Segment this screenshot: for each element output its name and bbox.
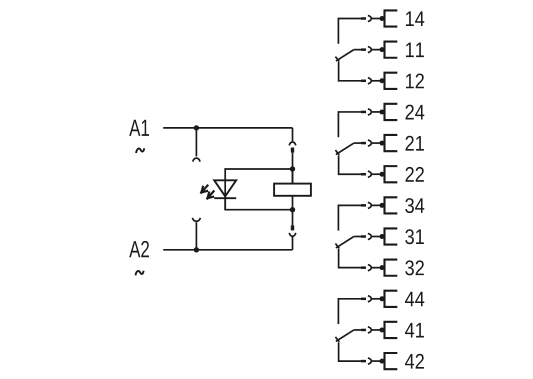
terminal label 41 [405, 323, 414, 338]
plug-in connection and terminal clamp 31 (common) [361, 228, 397, 244]
wire common 31 [354, 236, 361, 238]
wire NO contact 34 [338, 205, 361, 230]
terminal label 42 [405, 354, 414, 369]
terminal label 21 [406, 136, 414, 151]
junction coil top / LED branch top [290, 166, 295, 171]
terminal label 12 [406, 74, 414, 89]
plug-in connection and terminal clamp 11 (common) [361, 42, 397, 58]
LED emission arrow 1 [201, 186, 207, 193]
LED emission arrow 2 [207, 191, 213, 198]
terminal label 14 [406, 11, 414, 26]
movable contact lever (common 31) [336, 237, 354, 248]
wire NO contact 44 [338, 299, 361, 324]
wire common 41 [354, 329, 361, 331]
plug-in connection and terminal clamp 21 (common) [361, 135, 397, 151]
terminal label 22 [406, 167, 414, 182]
wire NO contact 24 [338, 112, 361, 137]
junction on A2 wire [194, 247, 199, 252]
NC fixed contact tip [335, 57, 339, 62]
movable contact lever (common 11) [336, 50, 354, 61]
terminal label 32 [405, 260, 414, 275]
NC fixed contact tip [335, 150, 339, 155]
NC fixed contact tip [335, 244, 339, 249]
coil terminal label A2 [129, 241, 140, 257]
wire from A1 corner down to plug-in connection [292, 128, 294, 141]
plug pin (relay side) on coil feed [291, 148, 294, 153]
wire NC contact 12 [339, 62, 361, 81]
wire plug to coil-top junction [292, 153, 294, 184]
junction coil bottom / LED branch bottom [290, 207, 295, 212]
plug-in connection and terminal clamp 32 (NC) [361, 260, 397, 276]
wire NO contact 14 [338, 19, 361, 44]
socket stub at A1 (wire) [195, 128, 197, 156]
wire A2 [163, 249, 292, 251]
terminal label 24 [406, 105, 414, 120]
plug-in connection and terminal clamp 34 (NO) [361, 197, 397, 213]
wire NC contact 42 [339, 342, 361, 361]
LED wire through diode [224, 180, 226, 209]
LED cathode bar [214, 197, 236, 199]
terminal label 44 [405, 292, 414, 307]
terminal label 31 [405, 229, 414, 244]
AC symbol (~) at A2 [136, 271, 144, 276]
terminal label 34 [405, 198, 414, 213]
plug-in connection and terminal clamp 24 (NO) [361, 104, 397, 120]
movable contact lever (common 41) [336, 330, 354, 341]
wire A1 [163, 127, 292, 129]
wire LED branch bottom [225, 196, 292, 209]
plug pin (relay side) on coil return [291, 225, 294, 230]
socket stub at A2 (wire) [195, 222, 197, 250]
plug-in connection and terminal clamp 41 (common) [361, 322, 397, 338]
plug-in connection and terminal clamp 12 (NC) [361, 73, 397, 89]
wire socket to A2 corner [292, 237, 294, 250]
socket contact (base side) on coil return [289, 233, 296, 236]
wire coil-bottom junction to plug [292, 210, 294, 226]
socket contact (base side) on coil feed [289, 142, 296, 145]
coil terminal label A1 [129, 120, 140, 136]
movable contact lever (common 21) [336, 143, 354, 154]
terminal label 11 [406, 43, 414, 58]
wire NC contact 22 [339, 155, 361, 174]
plug-in connection and terminal clamp 14 (NO) [361, 10, 397, 26]
socket contact at A1 stub [193, 158, 200, 161]
wire common 21 [354, 142, 361, 144]
LED indicator (diode triangle) [214, 180, 236, 196]
plug-in connection and terminal clamp 42 (NC) [361, 353, 397, 369]
wire NC contact 32 [339, 249, 361, 268]
wire common 11 [354, 49, 361, 51]
relay coil [274, 184, 311, 196]
NC fixed contact tip [335, 337, 339, 342]
socket contact at A2 stub [192, 218, 200, 221]
junction on A1 wire [194, 125, 199, 130]
plug-in connection and terminal clamp 44 (NO) [361, 291, 397, 307]
AC symbol (~) at A1 [136, 148, 144, 153]
plug-in connection and terminal clamp 22 (NC) [361, 166, 397, 182]
wire through relay coil [292, 169, 294, 210]
wire LED branch top [225, 169, 292, 180]
